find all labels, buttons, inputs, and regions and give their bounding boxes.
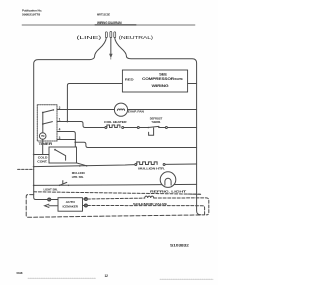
timer internal common line bbox=[42, 113, 44, 133]
icemaker right connector bottom bbox=[84, 204, 87, 207]
svg-text:12: 12 bbox=[105, 274, 109, 278]
icemaker box bbox=[58, 198, 83, 212]
svg-text:1: 1 bbox=[59, 117, 61, 121]
solenoid valve coil L1 bbox=[145, 196, 154, 198]
refrigerator lamp circle bbox=[160, 172, 176, 188]
wire neutral side from plug to right rail bbox=[115, 38, 201, 215]
dashed stub left of rail bbox=[18, 168, 34, 170]
timer motor lead down to cold control input wire bbox=[42, 139, 44, 154]
wire pin1 to heater branch bbox=[57, 122, 105, 128]
junction dot light wire bbox=[33, 185, 35, 187]
wire white compressor to right rail bbox=[188, 83, 197, 85]
svg-text:ICEMAKER: ICEMAKER bbox=[63, 204, 79, 208]
wire icemaker box to top connector bbox=[83, 198, 85, 200]
svg-text:COMPRESSOR: COMPRESSOR bbox=[142, 77, 175, 81]
mullion heater switch contact left bbox=[79, 165, 81, 167]
footer microtext line right bbox=[160, 278, 213, 280]
cold control contact dot bbox=[54, 149, 56, 151]
compressor box U1 SEE COMPRESSOR WIRING bbox=[122, 70, 187, 92]
timer contact dot upper bbox=[42, 112, 44, 114]
coil heater left terminal bbox=[105, 127, 107, 129]
defrost bimetal hook bbox=[149, 128, 154, 135]
svg-text:(LINE): (LINE) bbox=[77, 35, 103, 40]
header rule line bbox=[22, 24, 195, 26]
light switch contact right bbox=[68, 185, 70, 187]
mullion heater right terminal bbox=[163, 164, 165, 166]
mullion heater left terminal bbox=[135, 164, 137, 166]
defrost thermostat contact right bbox=[158, 127, 160, 129]
mullion heater element bbox=[137, 162, 157, 165]
defrost thermostat arm bbox=[148, 126, 159, 127]
svg-text:RED: RED bbox=[125, 77, 134, 81]
defrost thermostat left terminal bbox=[137, 127, 139, 129]
svg-text:REFRIG. LIGHT: REFRIG. LIGHT bbox=[150, 189, 186, 193]
wire evap fan to right rail bbox=[128, 109, 197, 111]
wire pin2 to evap fan bbox=[57, 109, 114, 111]
wire defrost terminal to contact bbox=[139, 127, 148, 129]
dashed wire to solenoid valve bbox=[87, 197, 144, 200]
wire cold control input from left rail bbox=[34, 154, 49, 156]
svg-text:WIRING DIAGRAM: WIRING DIAGRAM bbox=[97, 21, 122, 25]
timer switch arm upper bbox=[43, 110, 54, 113]
timer box (dashed) bbox=[37, 105, 57, 141]
plug prong middle bbox=[110, 32, 112, 38]
icemaker unplugged arrow lead bbox=[45, 204, 58, 207]
svg-text:MRT13CSE: MRT13CSE bbox=[97, 13, 110, 17]
light switch arm bbox=[60, 182, 67, 185]
ground wire from plug bbox=[110, 38, 112, 54]
label COLD CONT. bbox=[37, 155, 48, 163]
junction dot mullion wire bbox=[33, 166, 35, 168]
junction dot pin1 red feed bbox=[67, 121, 69, 123]
light switch plunger bbox=[62, 181, 64, 184]
wire coil heater to defrost thermostat bbox=[124, 127, 138, 129]
wire pin3 to vertical bbox=[57, 139, 75, 141]
dashed cabinet boundary line bbox=[34, 192, 201, 194]
svg-text:HTR. SW.: HTR. SW. bbox=[72, 175, 84, 179]
svg-text:SEE: SEE bbox=[159, 73, 167, 77]
wire connector to icemaker box bbox=[51, 199, 58, 201]
svg-text:THERM.: THERM. bbox=[151, 120, 161, 124]
coil heater right terminal bbox=[122, 127, 124, 129]
ground arrow bbox=[109, 54, 113, 58]
defrost thermostat contact left bbox=[148, 127, 150, 129]
svg-text:COIL HEATER: COIL HEATER bbox=[104, 120, 128, 124]
dashed return wire bottom run bbox=[100, 215, 205, 216]
plug prong left bbox=[105, 32, 107, 38]
defrost thermostat right terminal bbox=[165, 127, 167, 129]
svg-text:CONT.: CONT. bbox=[37, 160, 47, 164]
svg-text:5995219778: 5995219778 bbox=[22, 13, 41, 17]
wire light circuit from left rail to right rail bbox=[34, 184, 197, 185]
wire mullion circuit from left rail bbox=[34, 165, 135, 167]
svg-text:(NEUTRAL): (NEUTRAL) bbox=[119, 35, 154, 40]
light switch plunger dot bbox=[62, 180, 63, 181]
svg-text:WHITE: WHITE bbox=[174, 77, 183, 81]
wire left rail down to icemaker bbox=[34, 185, 48, 199]
footer microtext line left bbox=[28, 277, 96, 279]
evap fan motor circle bbox=[114, 103, 127, 116]
lamp filament bbox=[165, 178, 171, 185]
cold control box bbox=[49, 147, 77, 163]
wire pin4 jog down bbox=[57, 132, 75, 143]
svg-text:MULLION HTR.: MULLION HTR. bbox=[138, 166, 165, 170]
plug prong right bbox=[114, 32, 116, 38]
label DEFROST THERM. bbox=[150, 116, 163, 124]
dashed wire solenoid to right hook bbox=[154, 198, 209, 215]
wire defrost to right rail bbox=[160, 127, 197, 129]
wire pin4 vertical into cold control bbox=[72, 142, 76, 151]
header publication number text bbox=[22, 9, 42, 17]
mullion heater switch contact right bbox=[86, 165, 88, 167]
wire red compressor feed bbox=[67, 84, 122, 122]
svg-text:4: 4 bbox=[59, 128, 61, 132]
timer arm upper contact dot bbox=[53, 109, 55, 111]
dashed return wire left hook bbox=[26, 195, 100, 218]
svg-text:TM: TM bbox=[41, 135, 44, 138]
wire line side from plug to left rail bbox=[34, 38, 107, 186]
timer motor TM bbox=[39, 133, 46, 140]
wire icemaker box to bottom connector bbox=[83, 205, 85, 207]
cold control switch arm bbox=[55, 150, 66, 161]
icemaker left connector bbox=[48, 198, 51, 201]
evap fan motor winding bbox=[117, 109, 124, 110]
junction dot pin4 branch bbox=[74, 141, 76, 143]
label MULLION HTR. SW. bbox=[72, 171, 85, 179]
svg-text:S103832: S103832 bbox=[170, 243, 189, 247]
dark segment right end of boundary bbox=[188, 193, 201, 195]
icemaker right connector top bbox=[84, 198, 87, 201]
timer contact dot lower bbox=[42, 123, 44, 125]
wire mullion heater to right rail bbox=[165, 163, 197, 165]
coil heater element bbox=[107, 125, 120, 128]
svg-text:LIGHT SW.: LIGHT SW. bbox=[44, 187, 58, 191]
dashed wire bottom lead to right bbox=[87, 206, 204, 215]
mullion heater switch arm bbox=[76, 163, 86, 166]
svg-text:TIMER: TIMER bbox=[39, 142, 54, 146]
svg-text:WIRING: WIRING bbox=[152, 84, 170, 88]
junction dot cold control input bbox=[33, 154, 35, 156]
timer switch arm lower bbox=[43, 122, 53, 124]
light switch contact left bbox=[59, 185, 61, 187]
svg-text:0198: 0198 bbox=[17, 271, 23, 275]
wire pin4 branch to right rail bbox=[75, 142, 196, 147]
